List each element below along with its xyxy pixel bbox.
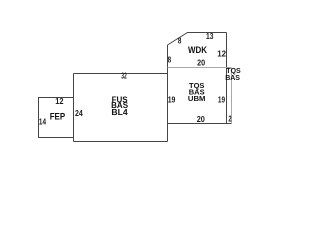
main house outline <box>74 74 168 142</box>
svg-text:20: 20 <box>197 114 205 124</box>
svg-text:BAS: BAS <box>225 75 240 82</box>
right block east wall <box>226 33 228 124</box>
gray east wall of 2ft bump <box>231 68 233 124</box>
right block south wall <box>168 123 232 125</box>
svg-text:19: 19 <box>168 95 176 105</box>
svg-text:TQS: TQS <box>226 68 241 75</box>
svg-text:12: 12 <box>217 49 226 59</box>
svg-text:20: 20 <box>197 58 205 68</box>
svg-text:32: 32 <box>121 71 127 81</box>
svg-text:13: 13 <box>206 31 214 41</box>
svg-text:19: 19 <box>218 94 225 104</box>
wood deck WDK outline <box>168 33 227 46</box>
gray north wall of TQS block <box>168 67 232 69</box>
svg-text:WDK: WDK <box>188 45 207 55</box>
svg-text:12: 12 <box>55 96 64 106</box>
svg-text:24: 24 <box>75 108 83 118</box>
svg-text:8: 8 <box>178 36 182 46</box>
svg-text:BL4: BL4 <box>111 108 128 117</box>
shared vertical wall <box>167 45 169 142</box>
FEP porch outline <box>39 98 74 138</box>
svg-text:8: 8 <box>168 55 172 65</box>
svg-text:FEP: FEP <box>50 111 65 121</box>
svg-text:2: 2 <box>228 113 231 123</box>
svg-text:UBM: UBM <box>188 94 206 103</box>
svg-text:14: 14 <box>39 116 46 126</box>
